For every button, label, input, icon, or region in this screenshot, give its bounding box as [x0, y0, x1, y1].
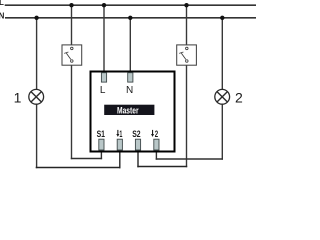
svg-text:1: 1 — [14, 89, 22, 105]
svg-text:S1: S1 — [97, 129, 106, 140]
svg-text:2: 2 — [155, 129, 158, 139]
svg-text:S2: S2 — [132, 129, 140, 140]
svg-text:L: L — [100, 85, 106, 96]
svg-text:N: N — [0, 12, 5, 21]
svg-text:N: N — [126, 85, 133, 96]
svg-text:Master: Master — [117, 105, 139, 115]
svg-text:L: L — [0, 0, 4, 7]
svg-text:1: 1 — [119, 129, 122, 139]
svg-text:2: 2 — [235, 89, 243, 105]
